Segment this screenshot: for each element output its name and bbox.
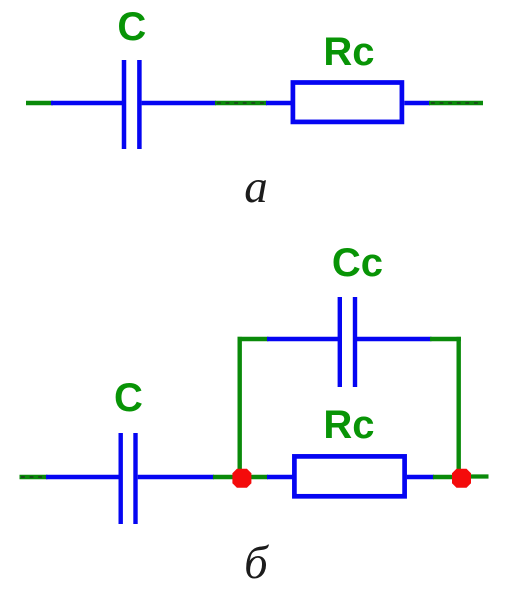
wire: blue segment resistor to node B (b) (407, 475, 434, 480)
svg-text:б: б (244, 537, 269, 589)
wire: blue segment to resistor (b) (267, 475, 293, 480)
wire: left green stub (b) (20, 475, 48, 480)
wire: blue segment C to green (a) (142, 101, 216, 106)
svg-text:C: C (114, 376, 143, 420)
resistor Rc (b) (294, 456, 404, 496)
wire: green segment into node A (b) (213, 475, 236, 480)
svg-text:Cc: Cc (332, 241, 383, 285)
svg-text:Rc: Rc (323, 403, 374, 447)
node A junction (red) (232, 469, 251, 488)
svg-text:a: a (244, 161, 268, 213)
svg-text:Rc: Rc (323, 30, 374, 74)
wire: right vertical green riser (b) (457, 337, 461, 474)
capacitor C (b) right plate (133, 433, 137, 524)
wire: mid green segment (a) (215, 101, 267, 106)
wire: green segment into node B (b) (433, 475, 455, 480)
wire: right green stub dark dashes (a) (431, 102, 482, 104)
wire: green segment node A to resistor (b) (247, 475, 268, 480)
wire: top branch blue segment to Cc (b) (267, 337, 338, 342)
svg-text:C: C (117, 5, 146, 49)
capacitor C (b) left plate (118, 433, 122, 524)
node B junction (red) (452, 469, 471, 488)
capacitor C (a) left plate (122, 60, 127, 149)
wire: mid green segment dark dashes (a) (217, 102, 266, 104)
capacitor Cc left plate (338, 297, 342, 387)
wire: left green stub dark dashes (b) (21, 476, 47, 478)
wire: right green stub (b) (468, 474, 489, 478)
wire: top branch left green segment (b) (238, 337, 269, 341)
capacitor C (a) right plate (137, 60, 142, 149)
capacitor Cc right plate (353, 297, 357, 387)
wire: right green stub (a) (429, 101, 483, 106)
wire: top branch right green segment (b) (430, 337, 461, 341)
wire: left vertical green riser (b) (237, 337, 241, 474)
resistor Rc (a) (293, 83, 402, 122)
wire: left blue segment to C (b) (46, 475, 119, 480)
wire: blue segment resistor to green (a) (404, 101, 430, 106)
wire: blue segment green to resistor (a) (266, 101, 292, 106)
wire: blue segment C to node A (b) (138, 475, 214, 480)
wire: top branch blue segment from Cc (b) (357, 337, 432, 342)
wire: left green stub (a) (26, 101, 53, 106)
wire: left blue segment to C (a) (51, 101, 122, 106)
